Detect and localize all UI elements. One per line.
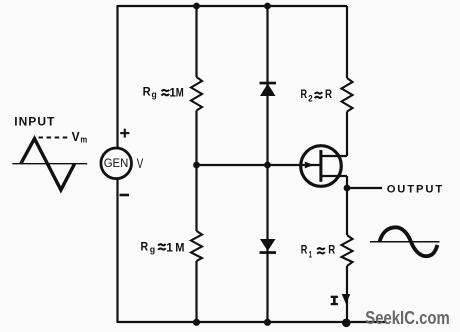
svg-text:2: 2 <box>308 94 312 105</box>
svg-text:M: M <box>176 86 184 100</box>
svg-text:R: R <box>301 89 308 101</box>
svg-text:R: R <box>328 245 336 257</box>
svg-text:R: R <box>325 89 333 101</box>
svg-text:R: R <box>141 239 149 253</box>
svg-text:INPUT: INPUT <box>14 115 55 129</box>
svg-text:GEN: GEN <box>104 158 129 170</box>
svg-text:1: 1 <box>309 250 313 261</box>
svg-text:M: M <box>175 241 184 255</box>
svg-text:1: 1 <box>166 241 173 255</box>
svg-text:V: V <box>72 129 80 144</box>
svg-text:m: m <box>80 135 87 145</box>
svg-text:OUTPUT: OUTPUT <box>387 184 444 196</box>
svg-text:R: R <box>301 245 308 257</box>
svg-text:SeekIC.com: SeekIC.com <box>365 308 449 328</box>
svg-text:R: R <box>143 84 151 98</box>
svg-text:g: g <box>152 89 157 100</box>
svg-text:g: g <box>150 245 156 256</box>
svg-text:V: V <box>137 156 144 171</box>
